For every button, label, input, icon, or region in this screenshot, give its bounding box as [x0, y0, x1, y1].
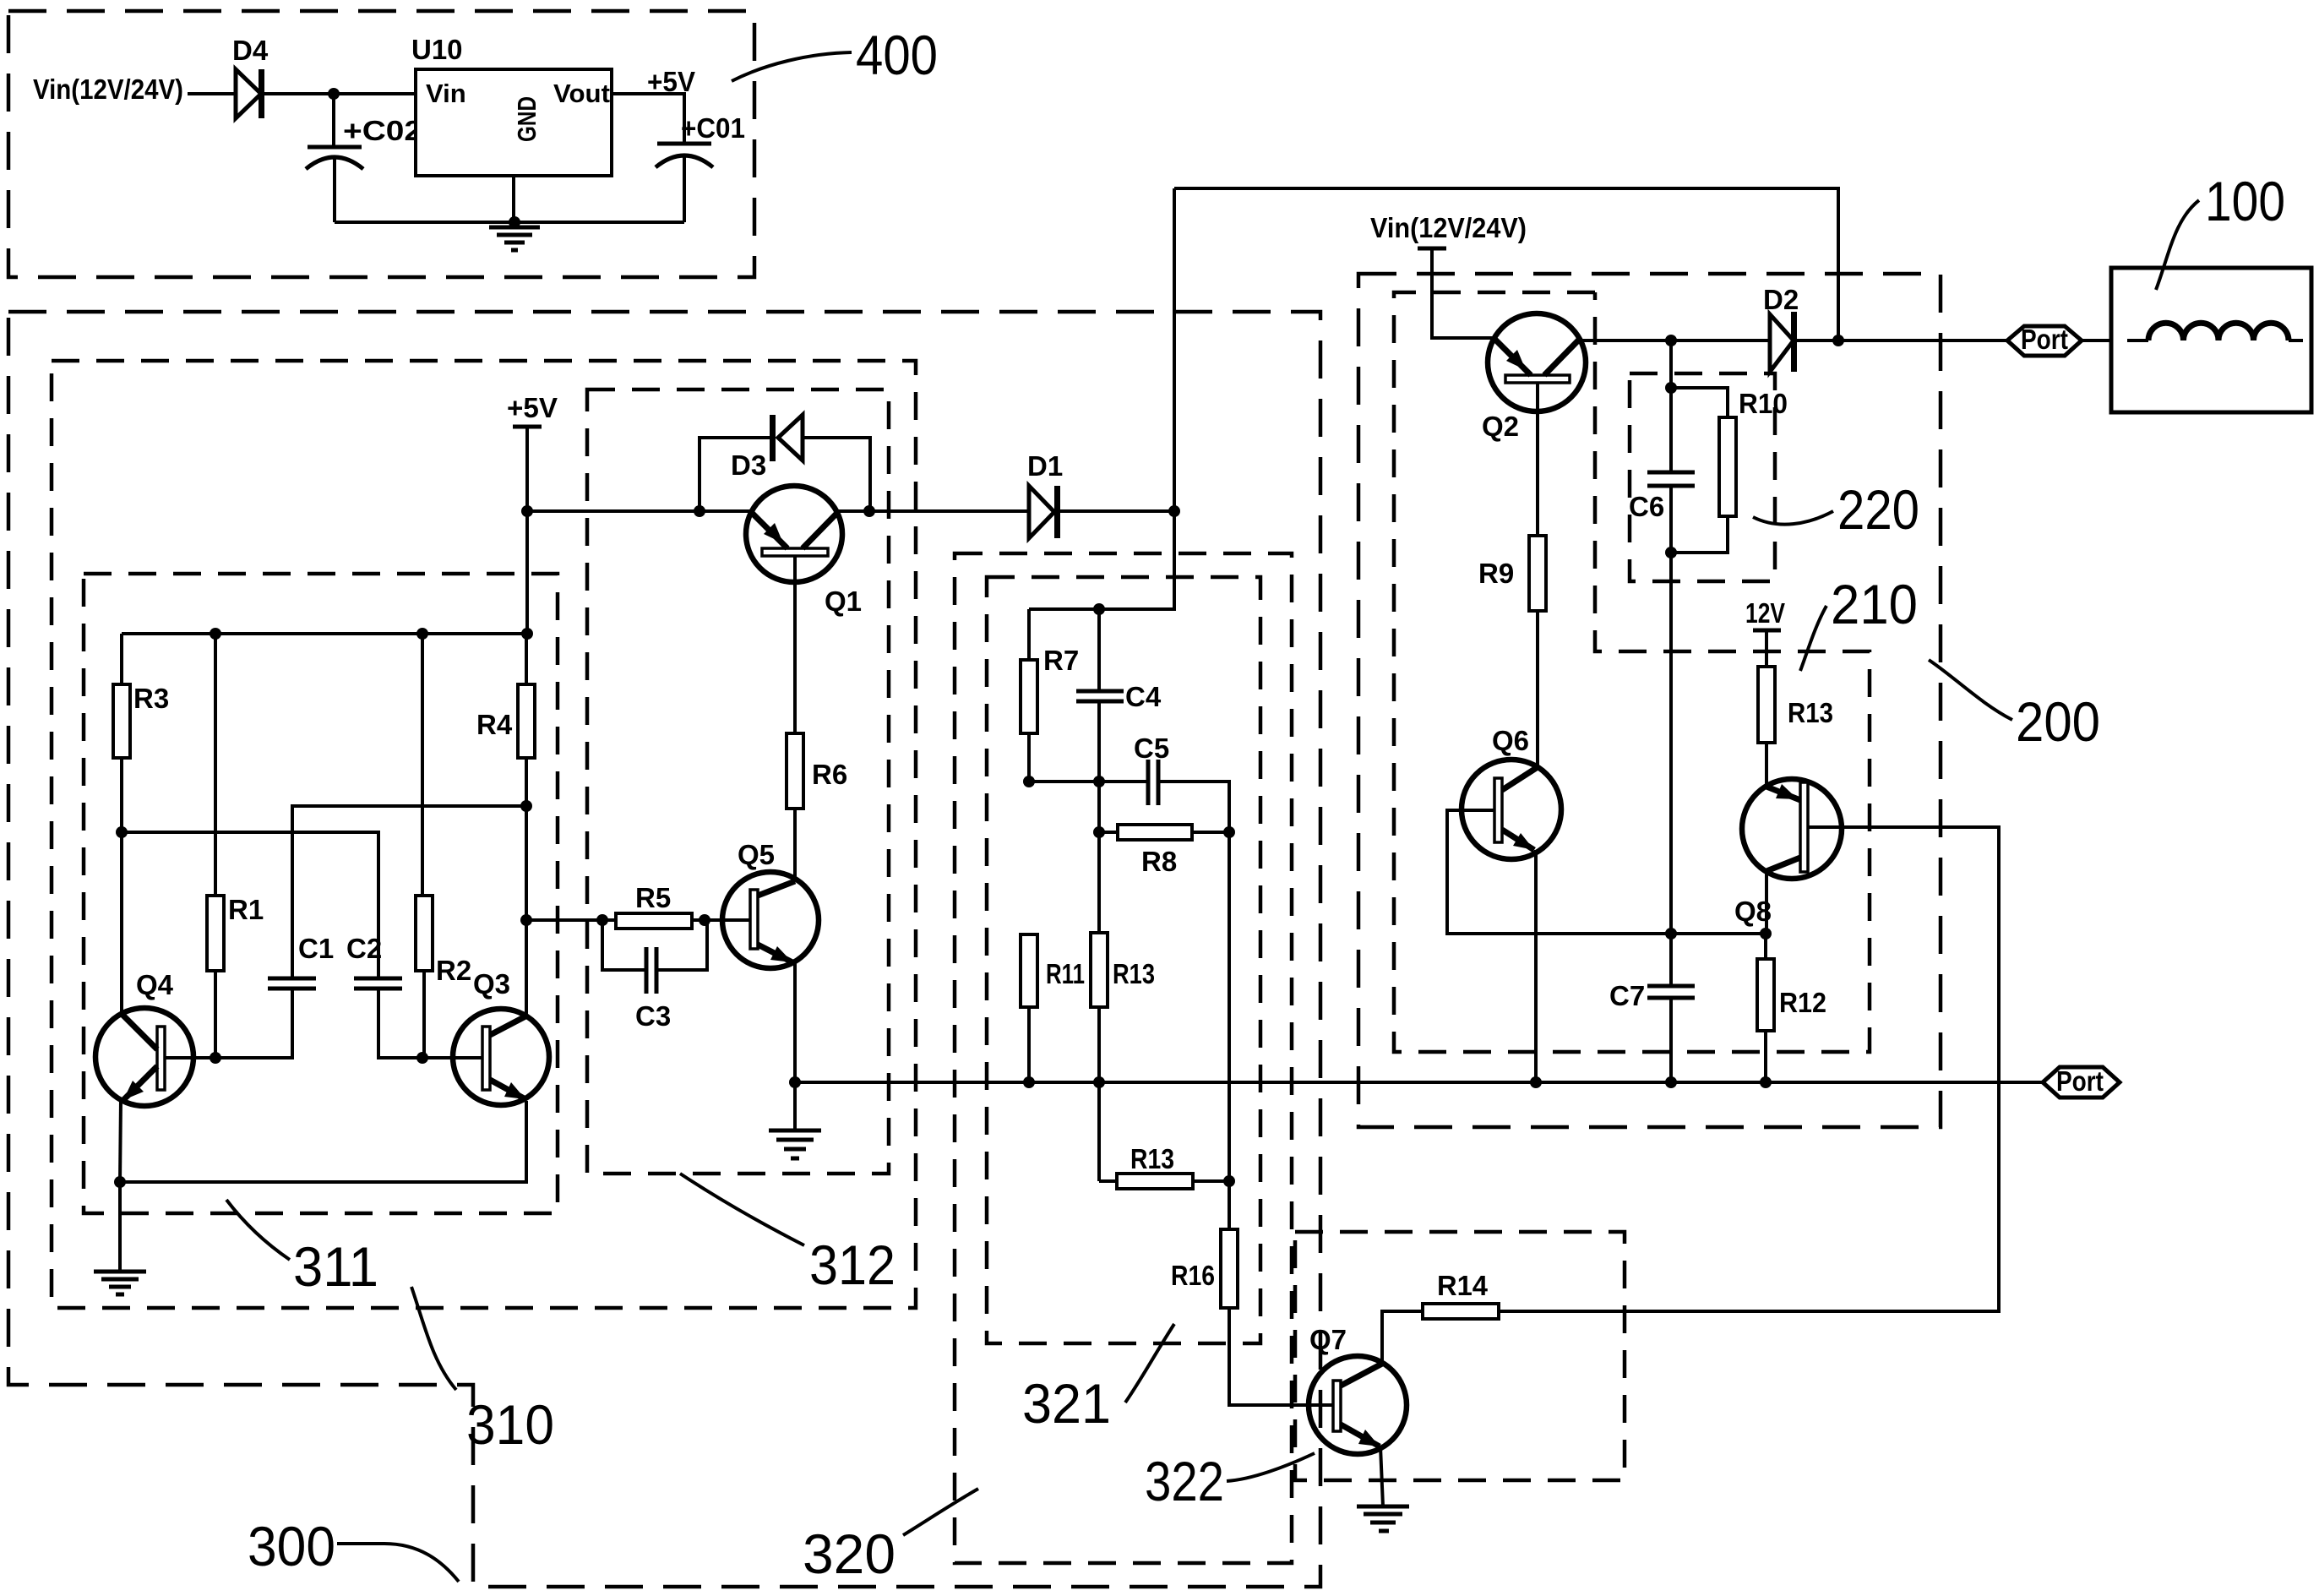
svg-text:C5: C5 [1134, 733, 1169, 764]
resistor R9 [1529, 536, 1546, 611]
node D3 right tap [863, 505, 875, 517]
leader 312 [680, 1174, 804, 1245]
dashed box 400 [8, 11, 754, 277]
svg-text:C3: C3 [635, 1000, 671, 1032]
inductor (load coil) [2127, 339, 2148, 342]
wire R6 to Q5 collector [793, 809, 797, 881]
svg-text:C7: C7 [1609, 980, 1645, 1011]
resistor R13 (horizontal) [1117, 1174, 1193, 1189]
wire cross line to C2 top [122, 832, 378, 978]
svg-text:Q1: Q1 [825, 586, 862, 617]
leader 100 [2156, 200, 2199, 290]
capacitor C4 [1097, 609, 1101, 691]
wire Q5 emitter down [793, 962, 797, 1130]
transistor Q2 [1488, 313, 1586, 411]
node C6 bottom [1665, 547, 1677, 558]
wire Q6 base loop to C7/Q8 rail [1447, 810, 1766, 934]
node +5V / main wire [521, 505, 533, 517]
wire C4 bottom [1097, 701, 1101, 782]
wire R13 bottom to port rail and beyond [1097, 1007, 1101, 1181]
node C4 top [1093, 603, 1105, 615]
leader 400 [732, 52, 852, 81]
node C3 left tap [596, 914, 608, 926]
node C6 top tap [1665, 335, 1677, 346]
svg-text:R2: R2 [436, 955, 471, 986]
svg-text:D1: D1 [1027, 450, 1063, 482]
wire junction row to C5 [1029, 780, 1148, 783]
leader 200 [1929, 660, 2012, 720]
resistor R6 [787, 733, 803, 809]
diode D3 (pointing left) [770, 415, 776, 461]
wire D2 cathode to Port [1797, 339, 2007, 342]
transistor Q5 [722, 872, 819, 968]
wire Q3 base [422, 1056, 482, 1059]
dashed box 321 [987, 577, 1260, 1343]
dashed box 322 [1295, 1232, 1625, 1480]
leader 300 [337, 1544, 459, 1582]
svg-text:D4: D4 [232, 35, 269, 66]
node R10 tap [1665, 382, 1677, 394]
wire 12V to R13 [1765, 630, 1768, 667]
resistor R1 [214, 634, 217, 896]
diode D2 [1770, 314, 1794, 372]
dashed box 220 [1630, 373, 1775, 581]
ground under Q4 [118, 1182, 122, 1272]
wire C5 right leg [1158, 782, 1229, 832]
wire R1 to Q4 base [214, 971, 217, 1058]
resistor R13 (in 210) [1758, 667, 1775, 743]
capacitor C3 [645, 947, 649, 994]
node Q6 emitter [1530, 1076, 1542, 1088]
wire R13 to Q8 emitter [1765, 743, 1768, 787]
svg-text:Port: Port [2056, 1065, 2104, 1097]
port rail wire [795, 1081, 2043, 1084]
svg-text:Vout: Vout [553, 79, 610, 108]
svg-text:R13: R13 [1788, 697, 1833, 728]
U10 GND pin wire [512, 176, 515, 222]
wire R10 bottom loop [1671, 516, 1728, 553]
ground symbol [489, 222, 540, 250]
transistor Q4 [95, 1008, 193, 1106]
wire C1 bottom to Q4 base [215, 989, 292, 1058]
wire R10 top loop [1671, 388, 1728, 417]
wire C6 bottom down to C7 [1669, 486, 1673, 986]
capacitor C02 (polarized) [332, 94, 335, 147]
node Q3 base [416, 1052, 428, 1064]
svg-text:D3: D3 [731, 449, 766, 481]
capacitor C1 [268, 977, 316, 981]
wire R7 top [1027, 609, 1031, 660]
port symbol (upper) [2007, 326, 2082, 356]
wire rail down to R4 [525, 634, 528, 684]
svg-text:322: 322 [1145, 1450, 1224, 1512]
leader 311 [226, 1200, 290, 1260]
dashed box 310 [52, 361, 916, 1308]
diode D4 [236, 69, 261, 118]
resistor R2 [421, 634, 424, 896]
svg-text:R13: R13 [1113, 958, 1155, 989]
leader 220 [1753, 511, 1833, 525]
wire R3 to Q4 collector [120, 758, 123, 1014]
svg-text:+5V: +5V [647, 66, 695, 97]
resistor R10 [1719, 417, 1736, 516]
resistor R14 [1423, 1304, 1499, 1319]
svg-text:311: 311 [293, 1235, 378, 1298]
leader 310 [411, 1287, 456, 1390]
wire Q1 base down to R6 [793, 556, 797, 733]
wire Q7 emitter to ground [1380, 1446, 1383, 1506]
node port-rail left end [789, 1076, 801, 1088]
wire top feed from D1 node to D2 node [1174, 188, 1838, 340]
svg-text:12V: 12V [1745, 597, 1785, 629]
node at C02 tap [328, 88, 340, 100]
resistor R16 [1221, 1229, 1238, 1308]
leader 322 [1227, 1453, 1315, 1481]
wire Vout to +5V corner [610, 94, 684, 144]
svg-text:R7: R7 [1043, 645, 1079, 676]
emitter rail Q4-Q3 [120, 1101, 526, 1182]
resistor R8 [1099, 831, 1118, 834]
wire R5 left [526, 918, 616, 922]
wire cross line to C1 top [292, 806, 526, 978]
wire +5V down to main rail [525, 427, 529, 511]
node Q8 collector / R12 [1760, 928, 1772, 940]
node R1 top [210, 628, 221, 640]
wire D3 bypass left leg [700, 438, 772, 511]
svg-text:R9: R9 [1478, 558, 1514, 589]
svg-text:R13: R13 [1130, 1143, 1174, 1174]
svg-text:+5V: +5V [507, 392, 558, 423]
power terminal bar 12V [1753, 629, 1781, 633]
wire R12 top [1764, 934, 1767, 959]
wire R9 to Q6 collector [1536, 611, 1539, 767]
svg-text:Q7: Q7 [1309, 1324, 1347, 1355]
svg-text:+C01: +C01 [681, 112, 745, 144]
wire R13b left leg [1099, 1179, 1117, 1183]
svg-text:321: 321 [1022, 1372, 1111, 1435]
node Q4 base [210, 1052, 221, 1064]
svg-text:310: 310 [466, 1393, 554, 1456]
transistor Q8 [1742, 779, 1842, 879]
wire R8 right [1192, 831, 1229, 834]
regulator U10 [416, 69, 612, 176]
node R13 bottom [1093, 1076, 1105, 1088]
wire R12 bottom to port rail [1764, 1031, 1767, 1082]
node D1/feed junction [1168, 505, 1180, 517]
power terminal bar [1418, 247, 1446, 251]
capacitor C3 loop (left leg) [602, 920, 646, 970]
svg-text:D2: D2 [1763, 284, 1799, 315]
svg-text:C6: C6 [1629, 491, 1664, 522]
capacitor C01 (polarized) [657, 142, 711, 146]
dashed box 200 [1358, 274, 1941, 1127]
svg-text:R16: R16 [1171, 1260, 1215, 1291]
wire R11 bottom to port rail [1027, 1007, 1031, 1082]
svg-text:R5: R5 [635, 882, 671, 913]
node R8/C5 right junction [1223, 826, 1235, 838]
node C4/R13 junction [1093, 776, 1105, 787]
svg-text:C1: C1 [298, 933, 334, 964]
transistor Q6 [1462, 760, 1561, 859]
svg-text:100: 100 [2205, 170, 2285, 232]
svg-text:220: 220 [1837, 478, 1919, 541]
svg-text:C4: C4 [1125, 681, 1162, 712]
svg-text:R14: R14 [1437, 1270, 1489, 1301]
dashed box 311 [84, 574, 558, 1213]
power terminal bar +5V [513, 425, 542, 429]
node R11 bottom [1023, 1076, 1035, 1088]
transistor Q7 [1309, 1356, 1407, 1454]
wire Vin terminal down to Q2 emitter [1432, 248, 1496, 338]
resistor R3 [113, 684, 130, 758]
wire C2 bottom to Q3 base [378, 989, 422, 1058]
node C7 top [1665, 928, 1677, 940]
wire Q8 base loop right and down to R14 [1499, 827, 1999, 1311]
svg-text:GND: GND [512, 96, 542, 142]
node R2 top [416, 628, 428, 640]
svg-text:Q2: Q2 [1482, 411, 1519, 442]
wire Q8 collector down [1765, 871, 1768, 934]
leader 210 [1800, 606, 1826, 671]
wire R2 to Q3 base [422, 971, 426, 1058]
wire rail down to R3 [120, 634, 123, 684]
svg-text:312: 312 [809, 1234, 895, 1296]
wire Vin to D4 anode [188, 92, 236, 95]
svg-text:200: 200 [2016, 690, 2100, 753]
resistor R13 (vertical in 321) [1091, 933, 1108, 1007]
svg-text:R12: R12 [1779, 987, 1826, 1018]
wire Q1 collector to D1 [835, 509, 1029, 513]
wire R8 junction column down [1228, 832, 1231, 1229]
wire Q4 emitter down [120, 1100, 121, 1182]
svg-text:300: 300 [248, 1515, 335, 1577]
capacitor C6 [1647, 471, 1695, 475]
+5V distribution rail [122, 632, 527, 635]
svg-text:Q6: Q6 [1492, 725, 1529, 756]
svg-text:Vin(12V/24V): Vin(12V/24V) [1370, 212, 1527, 243]
node R4/C1 line [520, 800, 532, 812]
svg-text:R10: R10 [1739, 388, 1788, 419]
capacitor C2 [354, 977, 402, 981]
leader 321 [1125, 1324, 1174, 1403]
node R5 left on Q3-collector column [520, 914, 532, 926]
dashed box 312 [587, 389, 889, 1174]
svg-text:400: 400 [856, 24, 938, 86]
wire R7 bottom [1027, 733, 1031, 782]
node R13b/R16 junction [1223, 1175, 1235, 1187]
node R12 bottom [1760, 1076, 1772, 1088]
node R8 left [1093, 826, 1105, 838]
node D3 left tap [694, 505, 705, 517]
svg-text:320: 320 [803, 1522, 895, 1585]
wire +5V down to R-rail [525, 511, 529, 634]
wire R16 bottom to Q7 base [1229, 1308, 1333, 1405]
node R3/C2 line [116, 826, 128, 838]
ground under Q5 [769, 1130, 821, 1158]
svg-text:Q3: Q3 [473, 968, 510, 1000]
wire D3 bypass right leg [803, 438, 870, 511]
wire R13 column [1097, 782, 1101, 933]
resistor R5 [616, 913, 692, 929]
wire Q4 base [165, 1056, 215, 1059]
svg-text:U10: U10 [411, 34, 463, 65]
svg-text:+C02: +C02 [343, 115, 422, 146]
svg-text:R8: R8 [1141, 846, 1177, 877]
svg-text:Vin: Vin [426, 79, 466, 108]
wire C6 column from main wire [1669, 340, 1673, 472]
ground rail of block 400 [335, 221, 684, 224]
node C7 bottom [1665, 1076, 1677, 1088]
resistor R12 [1757, 959, 1774, 1031]
node D2/top-feed junction [1832, 335, 1844, 346]
resistor R7 [1021, 660, 1037, 733]
wire D1 cathode to feed node [1060, 509, 1174, 513]
node rail/R4 [521, 628, 533, 640]
port symbol (lower) [2043, 1067, 2120, 1098]
svg-text:210: 210 [1831, 573, 1918, 635]
wire D4 cathode to U10 Vin [264, 92, 416, 95]
wire Q6 emitter down to port rail [1534, 850, 1538, 1082]
wire main +5V run to Q1 [527, 509, 752, 513]
wire feed column down to R7 rail [1029, 188, 1174, 609]
dashed box 300 (L-shaped) [8, 312, 1320, 1587]
node GND junction [509, 216, 520, 228]
svg-text:R6: R6 [812, 759, 847, 790]
wire Q2 collector to D2 [1576, 339, 1770, 342]
svg-text:R1: R1 [228, 894, 264, 925]
wire R13b right leg [1193, 1179, 1229, 1183]
dashed box 320 [955, 553, 1292, 1563]
node Q5 base [699, 914, 710, 926]
wire R4 to Q3 collector [525, 758, 528, 1016]
wire C7 bottom to port rail [1669, 998, 1673, 1082]
diode D1 [1029, 486, 1054, 538]
leader 320 [903, 1489, 978, 1535]
wire Q7 collector up to R14 [1382, 1311, 1423, 1364]
node R7/R11 junction [1023, 776, 1035, 787]
svg-text:R11: R11 [1046, 958, 1085, 989]
wire R5 right to Q5 base [692, 918, 750, 922]
wire Q2 base down to R9 [1536, 383, 1539, 536]
svg-text:R4: R4 [476, 709, 513, 740]
svg-text:Vin(12V/24V): Vin(12V/24V) [33, 74, 183, 105]
svg-text:R3: R3 [133, 683, 169, 714]
svg-text:C2: C2 [346, 933, 382, 964]
capacitor C7 [1647, 984, 1695, 989]
wire port to load box [2082, 339, 2111, 342]
resistor R11 [1021, 934, 1037, 1007]
resistor R4 [518, 684, 535, 758]
svg-text:Port: Port [2021, 324, 2068, 355]
ground under Q7 [1357, 1506, 1409, 1531]
transistor Q3 [453, 1009, 549, 1105]
capacitor C3 loop (right leg) [656, 920, 707, 970]
node emitter rail left [114, 1176, 126, 1188]
dashed box 210 (L-shaped) [1394, 292, 1870, 1052]
svg-text:Q5: Q5 [738, 839, 775, 870]
load box 100 [2111, 268, 2311, 412]
svg-text:Q4: Q4 [136, 969, 174, 1000]
capacitor C5 [1146, 760, 1151, 805]
transistor Q1 [746, 486, 842, 582]
